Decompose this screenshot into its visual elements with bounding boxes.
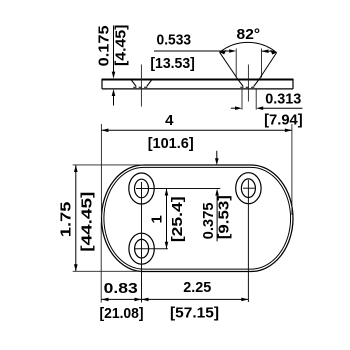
top-right hole vertical centerline <box>247 180 249 302</box>
svg-text:[101.6]: [101.6] <box>148 135 194 152</box>
bottom dimension line <box>101 298 248 300</box>
dimension 0.375 upper arrow pointing down <box>215 158 219 165</box>
svg-text:0.313: 0.313 <box>265 91 301 108</box>
right countersink hidden bottom line <box>240 86 256 88</box>
dimension 2.25 right arrow <box>241 298 248 302</box>
left countersink chamfer right <box>147 79 152 86</box>
dimension 4 line <box>101 129 292 131</box>
hole bottom-left countersink outer ellipse <box>129 233 154 264</box>
side view plate left edge <box>101 79 103 89</box>
dimension 0.533 leader line <box>154 50 231 52</box>
dimension 0.313 right arrow pointing left <box>256 106 263 110</box>
dimension 1.75 bottom arrow <box>74 264 78 271</box>
angular dimension arc 82 <box>220 42 277 52</box>
svg-text:2.25: 2.25 <box>183 279 211 296</box>
svg-text:[9.53]: [9.53] <box>215 195 232 239</box>
svg-text:4: 4 <box>165 112 174 129</box>
dimension 1.75 top arrow <box>74 165 78 172</box>
dimension 1.75 bottom extension line <box>73 270 141 272</box>
dimension 0.83 right arrow <box>135 298 142 302</box>
hole diameter extension line right <box>255 89 257 109</box>
dimension 0.533 outside arrow tail <box>262 50 275 52</box>
left countersink centerline <box>140 65 142 107</box>
dimension 1 line <box>166 189 168 249</box>
dimension 1 bottom arrow <box>165 242 169 249</box>
right countersink centerline <box>247 65 249 102</box>
angular arc right arrowhead <box>270 50 277 55</box>
svg-text:1: 1 <box>148 215 165 223</box>
right countersink chamfer right <box>254 79 259 86</box>
left holes vertical centerline <box>141 182 143 303</box>
dimension 4 left extension line <box>100 124 102 218</box>
countersink angle extension line right <box>259 53 277 80</box>
dimension 4 right extension line <box>291 124 293 215</box>
countersink angle extension line left <box>220 52 238 79</box>
svg-text:1.75: 1.75 <box>58 202 75 237</box>
countersink diameter extension line left <box>235 49 237 78</box>
hole top-left inner ellipse <box>135 179 149 198</box>
dimension 2.25 left arrow <box>142 298 149 302</box>
left countersink hidden bottom line <box>133 86 149 88</box>
svg-text:[13.53]: [13.53] <box>150 55 195 72</box>
dimension 0.313 left stub <box>231 107 237 109</box>
hole top-left countersink outer ellipse <box>129 173 154 204</box>
svg-text:[21.08]: [21.08] <box>100 305 144 322</box>
dimension 1.75 line <box>75 165 77 271</box>
top-right hole horizontal centerline <box>243 187 255 189</box>
dimension 0.313 right tail line <box>261 107 303 109</box>
hole bottom-left inner ellipse <box>135 239 149 258</box>
dimension 4 left arrow <box>101 129 108 133</box>
dimension 0.175 lower line <box>113 93 115 106</box>
left countersink chamfer left <box>131 79 136 86</box>
side view plate bottom edge <box>102 88 293 90</box>
dimension 0.533 right-pointing arrow <box>229 49 236 53</box>
dimension 0.313 left arrow pointing right <box>235 106 242 110</box>
svg-text:82°: 82° <box>237 26 261 43</box>
dimension 0.375 lower stub <box>216 193 218 242</box>
svg-text:0.83: 0.83 <box>104 280 138 297</box>
dimension 0.83 left arrow <box>102 298 109 302</box>
dimension 0.175 upper line <box>113 26 115 75</box>
countersink diameter extension line right <box>261 49 263 78</box>
hole top-right inner ellipse <box>241 179 255 198</box>
angular arc left arrowhead <box>220 50 227 55</box>
svg-text:[44.45]: [44.45] <box>78 192 95 252</box>
svg-text:0.175: 0.175 <box>96 25 113 66</box>
dimension 4 right arrow <box>285 129 292 133</box>
dimension 1.75 top extension line <box>73 164 144 166</box>
bottom-left hole horizontal centerline <box>135 248 168 250</box>
dimension 0.175 upper arrow <box>112 72 116 79</box>
hole top-right countersink outer ellipse <box>236 173 261 204</box>
svg-text:[7.94]: [7.94] <box>264 111 303 128</box>
hole diameter extension line left <box>241 89 243 109</box>
dimension 0.375 upper stub <box>216 151 218 161</box>
svg-text:[57.15]: [57.15] <box>170 304 219 321</box>
side view plate right edge <box>292 79 294 89</box>
top view inner stadium outline <box>104 167 291 269</box>
top view outer stadium outline <box>102 165 294 272</box>
dimension 0.175 lower arrow <box>112 89 116 96</box>
dimension 0.375 lower arrow pointing up <box>215 189 219 196</box>
plate left edge extension line <box>100 222 102 303</box>
dimension 0.533 outside arrow pointing left <box>262 49 269 53</box>
right countersink chamfer left <box>238 79 243 86</box>
svg-text:[4.45]: [4.45] <box>113 25 130 67</box>
dimension 1 top arrow <box>165 189 169 196</box>
svg-text:0.533: 0.533 <box>157 32 192 49</box>
side view plate top edge outer <box>102 78 293 80</box>
top-left hole horizontal centerline <box>136 188 220 190</box>
svg-text:[25.4]: [25.4] <box>169 196 186 242</box>
